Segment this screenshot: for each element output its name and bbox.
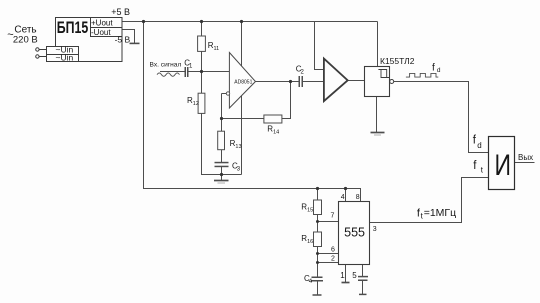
svg-text:4: 4 <box>341 194 345 201</box>
svg-text:5: 5 <box>352 271 357 280</box>
svg-text:AD8051: AD8051 <box>234 79 252 85</box>
svg-text:3: 3 <box>373 226 377 233</box>
svg-text:2: 2 <box>331 256 335 263</box>
svg-text:d: d <box>437 67 441 74</box>
svg-text:Вых: Вых <box>518 153 533 162</box>
svg-text:12: 12 <box>193 101 199 107</box>
svg-text:БП15: БП15 <box>57 19 89 37</box>
svg-text:d: d <box>477 141 481 150</box>
svg-text:f: f <box>432 63 435 74</box>
svg-text:14: 14 <box>273 130 279 136</box>
svg-text:15: 15 <box>307 208 313 214</box>
svg-text:~Uin: ~Uin <box>56 52 74 62</box>
svg-text:+5 В: +5 В <box>111 7 130 17</box>
svg-text:-Uout: -Uout <box>91 28 111 37</box>
svg-text:6: 6 <box>331 247 335 254</box>
svg-text:1: 1 <box>340 271 345 280</box>
svg-text:И: И <box>495 149 512 182</box>
svg-text:16: 16 <box>307 239 313 245</box>
svg-text:Вх. сигнал: Вх. сигнал <box>150 61 182 68</box>
svg-text:220 В: 220 В <box>13 34 38 45</box>
svg-text:7: 7 <box>331 213 335 220</box>
svg-text:+Uout: +Uout <box>91 19 113 28</box>
svg-text:-5 В: -5 В <box>115 35 131 45</box>
svg-text:555: 555 <box>344 226 365 240</box>
svg-text:8: 8 <box>356 194 360 201</box>
svg-text:13: 13 <box>235 144 241 150</box>
svg-text:11: 11 <box>214 46 220 52</box>
svg-text:=1МГц: =1МГц <box>424 207 456 219</box>
svg-text:К155ТЛ2: К155ТЛ2 <box>380 56 415 66</box>
